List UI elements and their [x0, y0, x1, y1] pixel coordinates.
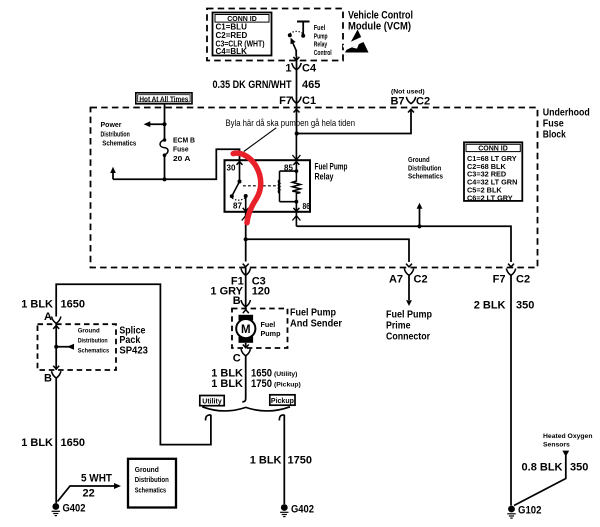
svg-text:SP423: SP423: [119, 345, 148, 357]
svg-text:C6=2 LT GRY: C6=2 LT GRY: [467, 193, 513, 202]
svg-text:Schematics: Schematics: [78, 348, 110, 355]
svg-text:G402: G402: [63, 503, 86, 515]
pickup branch hook: [279, 415, 284, 421]
svg-text:1: 1: [285, 63, 291, 75]
svg-text:1750: 1750: [288, 455, 312, 467]
wire: pin 87 down to bus node: [245, 212, 247, 239]
fuse ECM B 20 A: [160, 140, 168, 155]
label: Fuel Pump Relay: [315, 162, 348, 182]
svg-text:Schematics: Schematics: [135, 485, 166, 494]
svg-text:350: 350: [516, 300, 534, 312]
coil top rail: [280, 170, 297, 172]
svg-text:Fuel: Fuel: [261, 320, 276, 329]
svg-text:465: 465: [302, 79, 320, 91]
wire: hot feed down to fuse: [164, 103, 166, 140]
wire: pickup branch down to G402: [283, 415, 285, 504]
svg-text:Hot At All Times: Hot At All Times: [139, 96, 188, 103]
node: F7 C1 junction: [295, 131, 299, 135]
wire: splice B down to G402: [55, 378, 57, 503]
ground G402 (right): [280, 504, 314, 517]
fuel pump relay box K1: [225, 160, 311, 212]
wire: heated oxygen sensors to G102: [514, 456, 566, 506]
Utility tag box: [200, 396, 224, 406]
variant selection brace: [202, 407, 290, 411]
svg-text:Pump: Pump: [314, 33, 328, 40]
svg-text:Schematics: Schematics: [102, 138, 136, 147]
ESD sensitivity triangles icon: [343, 30, 369, 53]
arrow out of fuse block at F7 C2: [508, 264, 514, 267]
svg-text:1 BLK: 1 BLK: [211, 378, 243, 390]
svg-text:Heated Oxygen: Heated Oxygen: [543, 433, 592, 440]
connector symbol B (splice): [52, 371, 61, 378]
wire: B7 C2 branch to F7 C1 node: [297, 110, 411, 134]
svg-text:B: B: [233, 295, 241, 307]
label: Splice Pack SP423: [119, 324, 148, 356]
svg-text:1 BLK: 1 BLK: [21, 299, 53, 311]
pin 85 wire, arrow, plug chevron: [295, 134, 297, 172]
wire: 5 WHT to ground distribution: [58, 486, 115, 502]
connector symbol F7/C2: [506, 269, 515, 276]
wire: F7 C2 down to G102: [510, 275, 512, 505]
connector symbol C: [241, 349, 250, 356]
svg-text:Fuel: Fuel: [314, 25, 325, 32]
svg-text:0.35 DK GRN/WHT: 0.35 DK GRN/WHT: [213, 79, 292, 91]
label: Fuel Pump And Sender: [290, 307, 342, 330]
ground G402 (left): [52, 503, 86, 516]
node: ground distribution branch: [417, 224, 421, 228]
leader line for annotation: [244, 128, 276, 152]
svg-text:1750: 1750: [251, 378, 272, 390]
pin 30 arrow and wire: [239, 160, 241, 181]
node: power distribution branch: [162, 122, 166, 126]
wire: branch up to ground distribution label: [419, 209, 421, 227]
svg-text:Relay: Relay: [315, 172, 334, 182]
label: Ground Distribution Schematics (fuse block): [408, 155, 443, 181]
wire: fuse output down: [164, 155, 166, 179]
svg-text:2 BLK: 2 BLK: [474, 300, 506, 312]
svg-text:0.8 BLK: 0.8 BLK: [522, 462, 563, 474]
svg-text:5 WHT: 5 WHT: [81, 473, 112, 485]
relay switch common node: [238, 180, 242, 184]
Underhood Fuse Block dashed box: [91, 108, 538, 268]
label: Underhood Fuse Block: [543, 107, 590, 141]
arrow out of fuse block at F1 C3: [243, 264, 249, 267]
connector symbol B: [241, 300, 250, 307]
svg-text:Distribution: Distribution: [78, 338, 108, 345]
svg-text:Block: Block: [543, 129, 566, 141]
wire: branch left with up arrow: [113, 172, 165, 179]
arrow into pump box: [243, 310, 249, 313]
pin 87 wire and arrow: [245, 196, 247, 212]
wire through splice pack: [55, 323, 57, 370]
svg-text:Fuel Pump: Fuel Pump: [315, 162, 348, 172]
svg-text:(Not used): (Not used): [391, 89, 425, 96]
connector symbol A7/C2: [404, 269, 413, 276]
svg-text:Utility: Utility: [202, 398, 222, 405]
node: coil/resistor top: [295, 169, 299, 173]
svg-text:Distribution: Distribution: [101, 129, 130, 138]
connector table CONN ID (fuse block): [464, 142, 522, 202]
svg-text:Power: Power: [101, 120, 122, 129]
svg-text:C2: C2: [416, 96, 430, 108]
wire: branch to power distribution: [146, 123, 165, 125]
svg-text:1650: 1650: [61, 299, 85, 311]
node: fuse output junction: [162, 177, 166, 181]
svg-text:C4=BLK: C4=BLK: [216, 47, 248, 56]
svg-text:120: 120: [252, 286, 270, 298]
svg-text:B: B: [44, 373, 52, 385]
svg-text:G402: G402: [291, 504, 314, 516]
label: Heated Oxygen Sensors: [543, 433, 592, 449]
label: Ground Distribution Schematics (splice): [78, 328, 110, 355]
svg-text:F7: F7: [493, 274, 506, 286]
node: coil/resistor bottom: [295, 200, 299, 204]
svg-text:Sensors: Sensors: [543, 442, 570, 449]
coil bottom rail: [280, 201, 297, 203]
svg-text:Ground: Ground: [78, 328, 100, 335]
label: ECM B Fuse 20 A: [173, 136, 195, 164]
label: Power Distribution Schematics: [101, 120, 137, 147]
svg-text:22: 22: [83, 488, 95, 500]
svg-text:85: 85: [284, 164, 293, 173]
arrow out of fuse block at A7 C2: [406, 264, 412, 267]
wire: pin 86 bus to F7 C2: [296, 226, 511, 262]
svg-text:Ground: Ground: [135, 465, 159, 474]
arrow into fuse block at F7 C1: [294, 109, 300, 112]
svg-text:Pickup: Pickup: [271, 398, 294, 405]
svg-text:F7: F7: [279, 95, 292, 107]
svg-text:C2: C2: [516, 274, 530, 286]
svg-text:(Utility): (Utility): [274, 371, 297, 378]
svg-text:A7: A7: [389, 274, 403, 286]
svg-text:30: 30: [227, 164, 236, 173]
svg-text:CONN ID: CONN ID: [478, 145, 508, 152]
svg-text:Control: Control: [314, 50, 332, 57]
arrow out of pump box: [245, 343, 247, 348]
connector symbol F7/C1: [292, 97, 301, 104]
Hot At All Times label box: [136, 93, 192, 104]
label: Fuel Pump (inside box): [261, 320, 282, 338]
Pickup tag box: [270, 395, 295, 405]
connector table CONN ID (VCM): [213, 13, 272, 57]
wire: splice branch with left arrow: [56, 346, 74, 348]
svg-text:1650: 1650: [61, 437, 85, 449]
relay coil L: [278, 171, 279, 202]
node: splice junction: [54, 345, 58, 349]
wire: F1 C3 down to fuel pump: [245, 239, 247, 261]
relay switch blade: [232, 182, 239, 196]
wire: utility branch to splice pack A: [56, 284, 211, 444]
pin 86 wire, arrow, plug chevron: [295, 202, 297, 227]
relay resistor: [292, 171, 300, 202]
pin 87 plug chevron below relay: [242, 216, 250, 221]
svg-text:Relay: Relay: [314, 42, 327, 49]
svg-text:ECM B: ECM B: [173, 136, 195, 145]
relay actuation dashed link: [243, 185, 278, 187]
motor M1 fuel pump: [236, 315, 255, 343]
svg-text:B7: B7: [390, 96, 404, 108]
label: Fuel Pump Relay Control: [314, 25, 332, 57]
Fuel Pump And Sender dashed box: [232, 309, 288, 349]
connector symbol F1/C3: [241, 269, 250, 276]
label: Vehicle Control Module (VCM): [348, 10, 413, 33]
fuel pump relay control switch inside VCM: [290, 22, 310, 57]
relay switch open contact: [230, 194, 234, 198]
svg-text:C4: C4: [302, 63, 317, 75]
svg-text:Fuse: Fuse: [173, 145, 189, 154]
svg-text:And Sender: And Sender: [290, 318, 342, 330]
wire: A7 C2 to fuel pump prime connector: [408, 275, 410, 300]
svg-text:87: 87: [233, 202, 242, 211]
connector symbol A: [52, 317, 61, 324]
svg-text:20 A: 20 A: [173, 154, 190, 163]
label: Fuel Pump Prime Connector: [386, 309, 432, 343]
svg-text:1 BLK: 1 BLK: [21, 437, 53, 449]
wire: VCM pin 1 C4 down to fuse block F7 C1: [296, 56, 298, 134]
splice pack SP423 dashed box: [38, 324, 117, 370]
arrow into fuse block at B7 C2: [408, 109, 414, 112]
ground G102: [507, 505, 541, 519]
Ground Distribution Schematics box: [128, 459, 176, 508]
wire: 87 bus to A7 C2: [246, 239, 409, 262]
svg-text:G102: G102: [518, 505, 542, 517]
connector symbol B7/C2: [406, 97, 415, 104]
svg-text:350: 350: [570, 462, 588, 474]
node: relay 87 bus junction: [244, 237, 248, 241]
svg-text:Pump: Pump: [261, 329, 282, 338]
VCM module dashed box: [207, 9, 343, 61]
svg-text:C: C: [233, 353, 241, 365]
pin 87 contact node: [244, 194, 248, 198]
svg-text:Connector: Connector: [386, 331, 430, 343]
wire: fuse output to relay pin 30: [165, 149, 240, 179]
svg-text:Distribution: Distribution: [135, 475, 169, 484]
svg-text:86: 86: [303, 202, 311, 211]
utility branch hook: [206, 415, 211, 421]
svg-text:(Pickup): (Pickup): [274, 382, 301, 389]
svg-text:1 BLK: 1 BLK: [250, 455, 282, 467]
svg-text:C2: C2: [414, 274, 428, 286]
relay switch travel dotted arc: [232, 198, 245, 201]
svg-text:Schematics: Schematics: [408, 172, 443, 181]
svg-text:Byla här då ska pumpen gå hela: Byla här då ska pumpen gå hela tiden: [226, 118, 356, 129]
red hand-drawn highlight stroke: [233, 153, 261, 223]
connector symbol 1/C4: [292, 63, 301, 70]
wire: pump C down to variant brace: [242, 356, 245, 402]
svg-text:C1: C1: [302, 95, 316, 107]
arrow from heated oxygen sensors: [562, 451, 569, 457]
svg-text:M: M: [241, 324, 251, 336]
